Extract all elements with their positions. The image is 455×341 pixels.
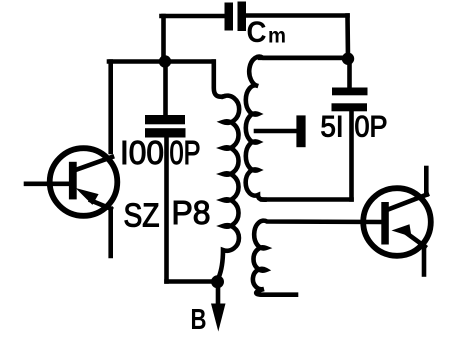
capacitor 1000P bottom plate (145, 128, 186, 137)
transistor Q1 emitter line (91, 201, 111, 209)
wire Q2 emitter lead (422, 247, 427, 275)
transistor Q2 emitter line (405, 232, 425, 247)
capacitor Cm right plate (238, 2, 247, 32)
svg-text:SZ: SZ (124, 197, 160, 234)
capacitor Cm left plate (225, 3, 234, 31)
svg-text:C: C (247, 16, 267, 49)
wire coil tap (256, 129, 296, 134)
transistor Q1 circle (50, 148, 118, 216)
capacitor 5100P bottom plate (332, 103, 368, 111)
wire 5100P bottom vertical (349, 111, 354, 199)
tap terminal bar (296, 115, 305, 147)
inductor L2 middle winding (246, 57, 348, 200)
wire top-right vertical (345, 16, 350, 59)
wire 1000P top (163, 62, 168, 116)
transistor Q1 emitter arrow (76, 188, 99, 205)
wire top-left vertical (161, 16, 166, 62)
inductor L3 bottom winding (253, 221, 380, 295)
transistor Q2 collector line (388, 195, 427, 210)
svg-text:5I: 5I (321, 111, 344, 144)
transistor Q1 base bar (69, 162, 77, 200)
wire node-top to middle coil top (260, 55, 348, 60)
capacitor 5100P top plate (332, 88, 368, 96)
wire 5100P bottom to middle coil bottom (262, 197, 352, 202)
svg-text:B: B (191, 304, 207, 336)
capacitor 1000P top plate (145, 115, 185, 124)
wire mid horizontal bus (109, 59, 214, 64)
node left junction dot (159, 55, 171, 67)
svg-text:0P: 0P (355, 111, 388, 144)
wire bottom horizontal to node B (167, 279, 218, 284)
svg-text:m: m (268, 25, 286, 48)
wire Cm to right corner (246, 13, 348, 18)
svg-text:I00: I00 (120, 134, 164, 171)
inductor L1 left winding (218, 96, 240, 280)
arrow B head (211, 304, 226, 332)
transistor Q2 base bar (381, 202, 389, 245)
wire B arrow stem (216, 282, 221, 306)
wire Q2 collector lead (424, 168, 429, 195)
transistor Q1 collector line (76, 157, 112, 170)
node B junction dot (211, 275, 224, 288)
wire node-top down to C 5100P (347, 59, 352, 88)
wire bus corner down to left coil (214, 62, 223, 97)
transistor Q2 emitter arrow (392, 224, 412, 237)
wire top horizontal left to Cm (162, 14, 226, 19)
svg-text:P8: P8 (172, 194, 211, 231)
svg-text:0P: 0P (170, 134, 201, 171)
wire Q1 emitter lead (108, 209, 113, 256)
node top-right junction dot (342, 53, 354, 65)
wire 1000P bottom vertical (164, 138, 169, 282)
transistor Q2 circle (363, 188, 431, 256)
wire Q1 base lead (26, 182, 70, 187)
wire bus down to Q1 collector (108, 62, 113, 153)
